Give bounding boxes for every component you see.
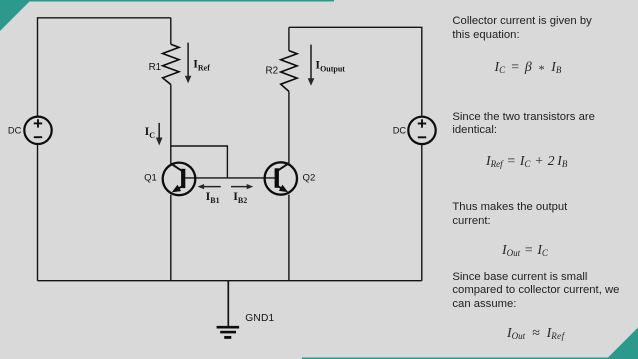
transistor Q1 <box>163 163 196 196</box>
equation 1 <box>495 60 562 74</box>
resistor R1 <box>163 44 179 84</box>
wire top-left loop <box>38 18 171 117</box>
svg-text:Q2: Q2 <box>303 173 316 184</box>
label IOutput <box>315 57 345 73</box>
wire left vertical lower <box>37 144 39 281</box>
svg-text:IB2: IB2 <box>233 189 247 205</box>
wire Q1 emitter lead <box>170 195 172 281</box>
text paragraph 1 <box>452 15 591 43</box>
svg-text:DC: DC <box>393 126 407 136</box>
svg-text:IC: IC <box>145 124 156 140</box>
label Q1 <box>144 173 157 184</box>
label R2 <box>266 66 279 77</box>
wire Q2 emitter lead <box>288 195 290 281</box>
current arrow IC <box>156 123 163 146</box>
label IB1 <box>206 189 220 205</box>
wire R1 to Q1 collector <box>170 85 172 164</box>
label IRef <box>193 57 210 73</box>
wire collector-base tie <box>171 146 228 178</box>
wire R2 to Q2 collector <box>288 91 290 163</box>
svg-text:R1: R1 <box>149 62 162 73</box>
label IB2 <box>233 189 247 205</box>
svg-text:IRef: IRef <box>193 57 210 73</box>
svg-text:Q1: Q1 <box>144 173 157 184</box>
wire top-right loop <box>289 27 422 117</box>
equation 4 <box>507 326 565 340</box>
current arrow IB2 <box>231 184 253 189</box>
text paragraph 3 <box>452 201 567 229</box>
transistor Q2 <box>265 162 297 194</box>
svg-text:R2: R2 <box>266 66 279 77</box>
text paragraph 4 <box>452 271 619 312</box>
equation 3 <box>502 243 548 257</box>
wire R2 branch top lead <box>288 27 290 50</box>
label Q2 <box>303 173 316 184</box>
text paragraph 2 <box>452 111 595 139</box>
wire right vertical lower <box>421 144 423 281</box>
wire bottom rail <box>38 280 422 282</box>
label GND1 <box>245 313 274 324</box>
equation 2 <box>486 154 567 168</box>
svg-text:IOutput: IOutput <box>315 57 345 73</box>
wire base rail <box>185 177 275 179</box>
svg-text:DC: DC <box>8 126 22 136</box>
current arrow IOutput <box>308 45 315 86</box>
svg-text:IB1: IB1 <box>206 189 220 205</box>
ground GND1 <box>217 327 240 337</box>
DC source V2 <box>408 117 435 144</box>
label DC (left source) <box>8 126 22 136</box>
label DC (right source) <box>393 126 407 136</box>
label R1 <box>149 62 162 73</box>
svg-text:GND1: GND1 <box>245 313 274 324</box>
resistor R2 <box>281 51 297 92</box>
DC source V1 <box>24 117 51 144</box>
current arrow IB1 <box>198 184 221 189</box>
wire R1 branch top lead <box>170 18 172 45</box>
wire ground stub <box>227 281 229 327</box>
label IC <box>145 124 156 140</box>
current arrow IRef <box>185 43 192 84</box>
